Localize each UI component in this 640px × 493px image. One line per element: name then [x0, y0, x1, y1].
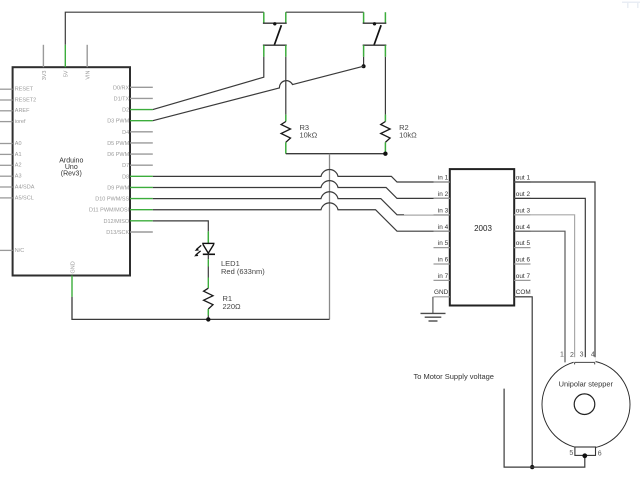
Arduino Uno U1 body — [13, 67, 130, 275]
R2 value 10kΩ — [399, 123, 417, 140]
U2 pin COM — [514, 289, 531, 297]
Arduino pin A5/SCL — [0, 195, 34, 201]
svg-text:D11 PWM/MOSI: D11 PWM/MOSI — [89, 208, 130, 214]
svg-text:D0/RX: D0/RX — [113, 85, 130, 91]
stepper motor M1 body — [542, 357, 630, 448]
svg-text:D1/TX: D1/TX — [114, 96, 130, 102]
U2 pin in 2 — [434, 191, 450, 198]
U2 pin in 5 — [434, 240, 450, 247]
svg-text:A1: A1 — [15, 152, 22, 158]
svg-text:in 2: in 2 — [438, 191, 449, 198]
svg-text:out 2: out 2 — [516, 191, 531, 198]
Arduino pin D2 — [122, 108, 153, 114]
svg-text:GND: GND — [70, 261, 76, 273]
svg-text:Red (633nm): Red (633nm) — [221, 267, 265, 276]
svg-text:2: 2 — [570, 352, 574, 359]
wire S1 to R3 — [285, 57, 287, 115]
svg-text:D4: D4 — [122, 130, 129, 136]
M1 bottom terminal block — [575, 447, 596, 455]
Arduino pin D8 — [122, 174, 153, 180]
svg-text:RESET: RESET — [15, 87, 34, 93]
M1 label Unipolar stepper — [559, 380, 614, 389]
svg-text:5: 5 — [569, 450, 573, 457]
wire out 2 to stepper pin 3 — [514, 198, 585, 362]
svg-text:in 6: in 6 — [438, 257, 449, 264]
svg-text:D13/SCK: D13/SCK — [106, 230, 129, 236]
U2 pin out 3 — [514, 207, 530, 214]
Arduino pin A2 — [0, 163, 22, 169]
svg-text:D8: D8 — [122, 174, 129, 180]
Arduino pin A4/SDA — [0, 184, 35, 190]
wire S1 to S2 — [286, 11, 364, 13]
resistor R1 — [204, 288, 213, 319]
M1 pin 4 — [591, 352, 595, 359]
R3 value 10kΩ — [300, 123, 318, 140]
U2 pin in 7 — [434, 273, 450, 280]
svg-text:D12/MISO: D12/MISO — [104, 219, 130, 225]
Arduino pin D1/TX — [114, 96, 153, 102]
Arduino pin RESET — [0, 87, 34, 93]
svg-text:RESET2: RESET2 — [15, 97, 36, 103]
svg-text:3V3: 3V3 — [42, 71, 48, 81]
svg-text:ioref: ioref — [15, 119, 26, 125]
wire D12 to LED1 — [153, 221, 209, 244]
net label To Motor Supply voltage — [414, 372, 494, 381]
faint edge artifact — [622, 2, 640, 8]
M1 pin 6 — [598, 450, 602, 457]
wire Arduino GND rail — [72, 297, 330, 320]
M1 pin 3 — [580, 352, 584, 359]
svg-text:(Rev3): (Rev3) — [61, 171, 82, 178]
wire 5V to S1 — [65, 12, 263, 45]
svg-text:in 7: in 7 — [438, 273, 449, 280]
pushbutton switch S1 — [263, 12, 287, 57]
Arduino pin D0/RX — [113, 85, 153, 91]
svg-text:D7: D7 — [122, 163, 129, 169]
R1 value 220Ω — [223, 294, 242, 311]
svg-text:A5/SCL: A5/SCL — [15, 195, 34, 201]
svg-text:A4/SDA: A4/SDA — [15, 184, 35, 190]
U2 label 2003 — [474, 224, 492, 233]
wire R3/R2 bottom bar — [286, 153, 386, 155]
junction COM-supply — [530, 465, 534, 469]
wire COM to supply — [514, 297, 532, 467]
U2 pin in 3 — [434, 207, 450, 214]
svg-text:GND: GND — [434, 289, 449, 296]
Arduino pin VIN — [86, 45, 92, 80]
resistor R2 — [381, 115, 390, 154]
svg-text:D9 PWM: D9 PWM — [107, 185, 129, 191]
wire U2 GND to ground — [432, 297, 434, 314]
svg-text:D2: D2 — [122, 108, 129, 114]
Arduino pin 3V3 — [42, 45, 48, 80]
LED LED1 — [194, 243, 215, 256]
wire out 4 to stepper pin 1 — [514, 231, 565, 362]
M1 pin 5 — [569, 450, 573, 457]
svg-text:in 1: in 1 — [438, 175, 449, 182]
Arduino pin A0 — [0, 141, 22, 147]
svg-text:4: 4 — [591, 352, 595, 359]
U2 pin out 7 — [514, 273, 530, 280]
svg-text:out 5: out 5 — [516, 240, 531, 247]
svg-text:6: 6 — [598, 450, 602, 457]
svg-text:in 5: in 5 — [438, 240, 449, 247]
junction R2-GND — [383, 152, 387, 156]
wire S1 to D2 — [153, 57, 264, 110]
svg-text:D6 PWM: D6 PWM — [107, 152, 129, 158]
svg-text:To Motor Supply voltage: To Motor Supply voltage — [414, 372, 494, 381]
Arduino pin D4 — [122, 130, 153, 136]
svg-text:A2: A2 — [15, 163, 22, 169]
svg-text:out 7: out 7 — [516, 273, 531, 280]
svg-text:in 4: in 4 — [438, 224, 449, 231]
junction motor supply tap — [582, 453, 587, 458]
svg-text:Unipolar stepper: Unipolar stepper — [559, 380, 614, 389]
Arduino pin D7 — [122, 163, 153, 169]
svg-text:1: 1 — [560, 352, 564, 359]
wire D8 to in 1 (hop over GND bus) — [153, 169, 450, 182]
svg-text:5V: 5V — [64, 70, 70, 77]
svg-text:out 1: out 1 — [516, 175, 531, 182]
wire D11 to in 4 (hop over GND bus) — [153, 203, 450, 231]
wire GND bus vertical — [329, 154, 331, 320]
U2 pin in 4 — [434, 224, 450, 231]
Arduino pin AREF — [0, 108, 30, 114]
svg-text:out 6: out 6 — [516, 257, 531, 264]
U2 pin out 4 — [514, 224, 530, 231]
U2 pin GND — [434, 289, 450, 297]
resistor R3 — [281, 115, 290, 154]
Arduino pin RESET2 — [0, 97, 36, 103]
svg-text:out 4: out 4 — [516, 224, 531, 231]
ground — [421, 313, 446, 321]
wire S2 to R2 — [384, 57, 386, 115]
svg-text:10kΩ: 10kΩ — [399, 131, 417, 140]
wire motor supply — [504, 389, 585, 468]
svg-text:COM: COM — [516, 289, 531, 296]
U2 pin in 6 — [434, 257, 450, 264]
wire out 3 to stepper pin 2 — [514, 215, 574, 363]
node A (S2 junction) — [362, 57, 366, 68]
svg-text:2003: 2003 — [474, 224, 492, 233]
U2 pin out 2 — [514, 191, 530, 198]
Arduino pin D11 PWM/MOSI — [89, 208, 153, 214]
Arduino pin ioref — [0, 119, 26, 125]
LED1 value Red (633nm) — [221, 259, 265, 276]
driver IC U2 body — [450, 169, 514, 305]
svg-text:3: 3 — [580, 352, 584, 359]
Arduino pin 5V — [64, 45, 70, 77]
U2 pin in 1 — [434, 175, 450, 182]
Arduino pin GND — [70, 261, 76, 297]
U2 pin out 1 — [514, 175, 530, 182]
Arduino pin A3 — [0, 174, 22, 180]
wire out 1 to stepper pin 4 — [514, 182, 595, 362]
U2 pin out 6 — [514, 257, 530, 264]
svg-text:out 3: out 3 — [516, 207, 531, 214]
M1 pin 1 — [560, 352, 564, 359]
Arduino pin D12/MISO — [104, 219, 153, 225]
svg-text:D5 PWM: D5 PWM — [107, 141, 129, 147]
Arduino pin D3 PWM — [107, 119, 153, 125]
Arduino pin D9 PWM — [107, 185, 153, 191]
svg-text:10kΩ: 10kΩ — [300, 131, 318, 140]
Arduino pin D5 PWM — [107, 141, 153, 147]
Arduino pin D13/SCK — [106, 230, 153, 236]
M1 pin 2 — [570, 352, 574, 359]
svg-text:D3 PWM: D3 PWM — [107, 119, 129, 125]
junction R1-GND rail — [206, 317, 210, 321]
wire D10 to in 3 (hop over GND bus) — [153, 192, 450, 215]
wire S2 to D3 (with hop) — [153, 66, 364, 120]
pushbutton switch S2 — [363, 12, 387, 57]
svg-text:N/C: N/C — [15, 248, 24, 254]
Arduino pin D6 PWM — [107, 152, 153, 158]
svg-text:in 3: in 3 — [438, 207, 449, 214]
Arduino pin N/C — [0, 248, 24, 254]
wire D9 to in 2 (hop over GND bus) — [153, 181, 450, 199]
Arduino Uno U1 label — [59, 158, 83, 178]
Arduino pin A1 — [0, 152, 22, 158]
Arduino pin D10 PWM/SS — [95, 197, 153, 203]
wire LED1 to R1 — [207, 254, 209, 288]
svg-text:D10 PWM/SS: D10 PWM/SS — [95, 197, 129, 203]
U2 pin out 5 — [514, 240, 530, 247]
svg-text:A0: A0 — [15, 141, 22, 147]
svg-text:A3: A3 — [15, 174, 22, 180]
svg-text:220Ω: 220Ω — [223, 302, 242, 311]
svg-text:VIN: VIN — [86, 70, 92, 79]
svg-text:AREF: AREF — [15, 108, 30, 114]
